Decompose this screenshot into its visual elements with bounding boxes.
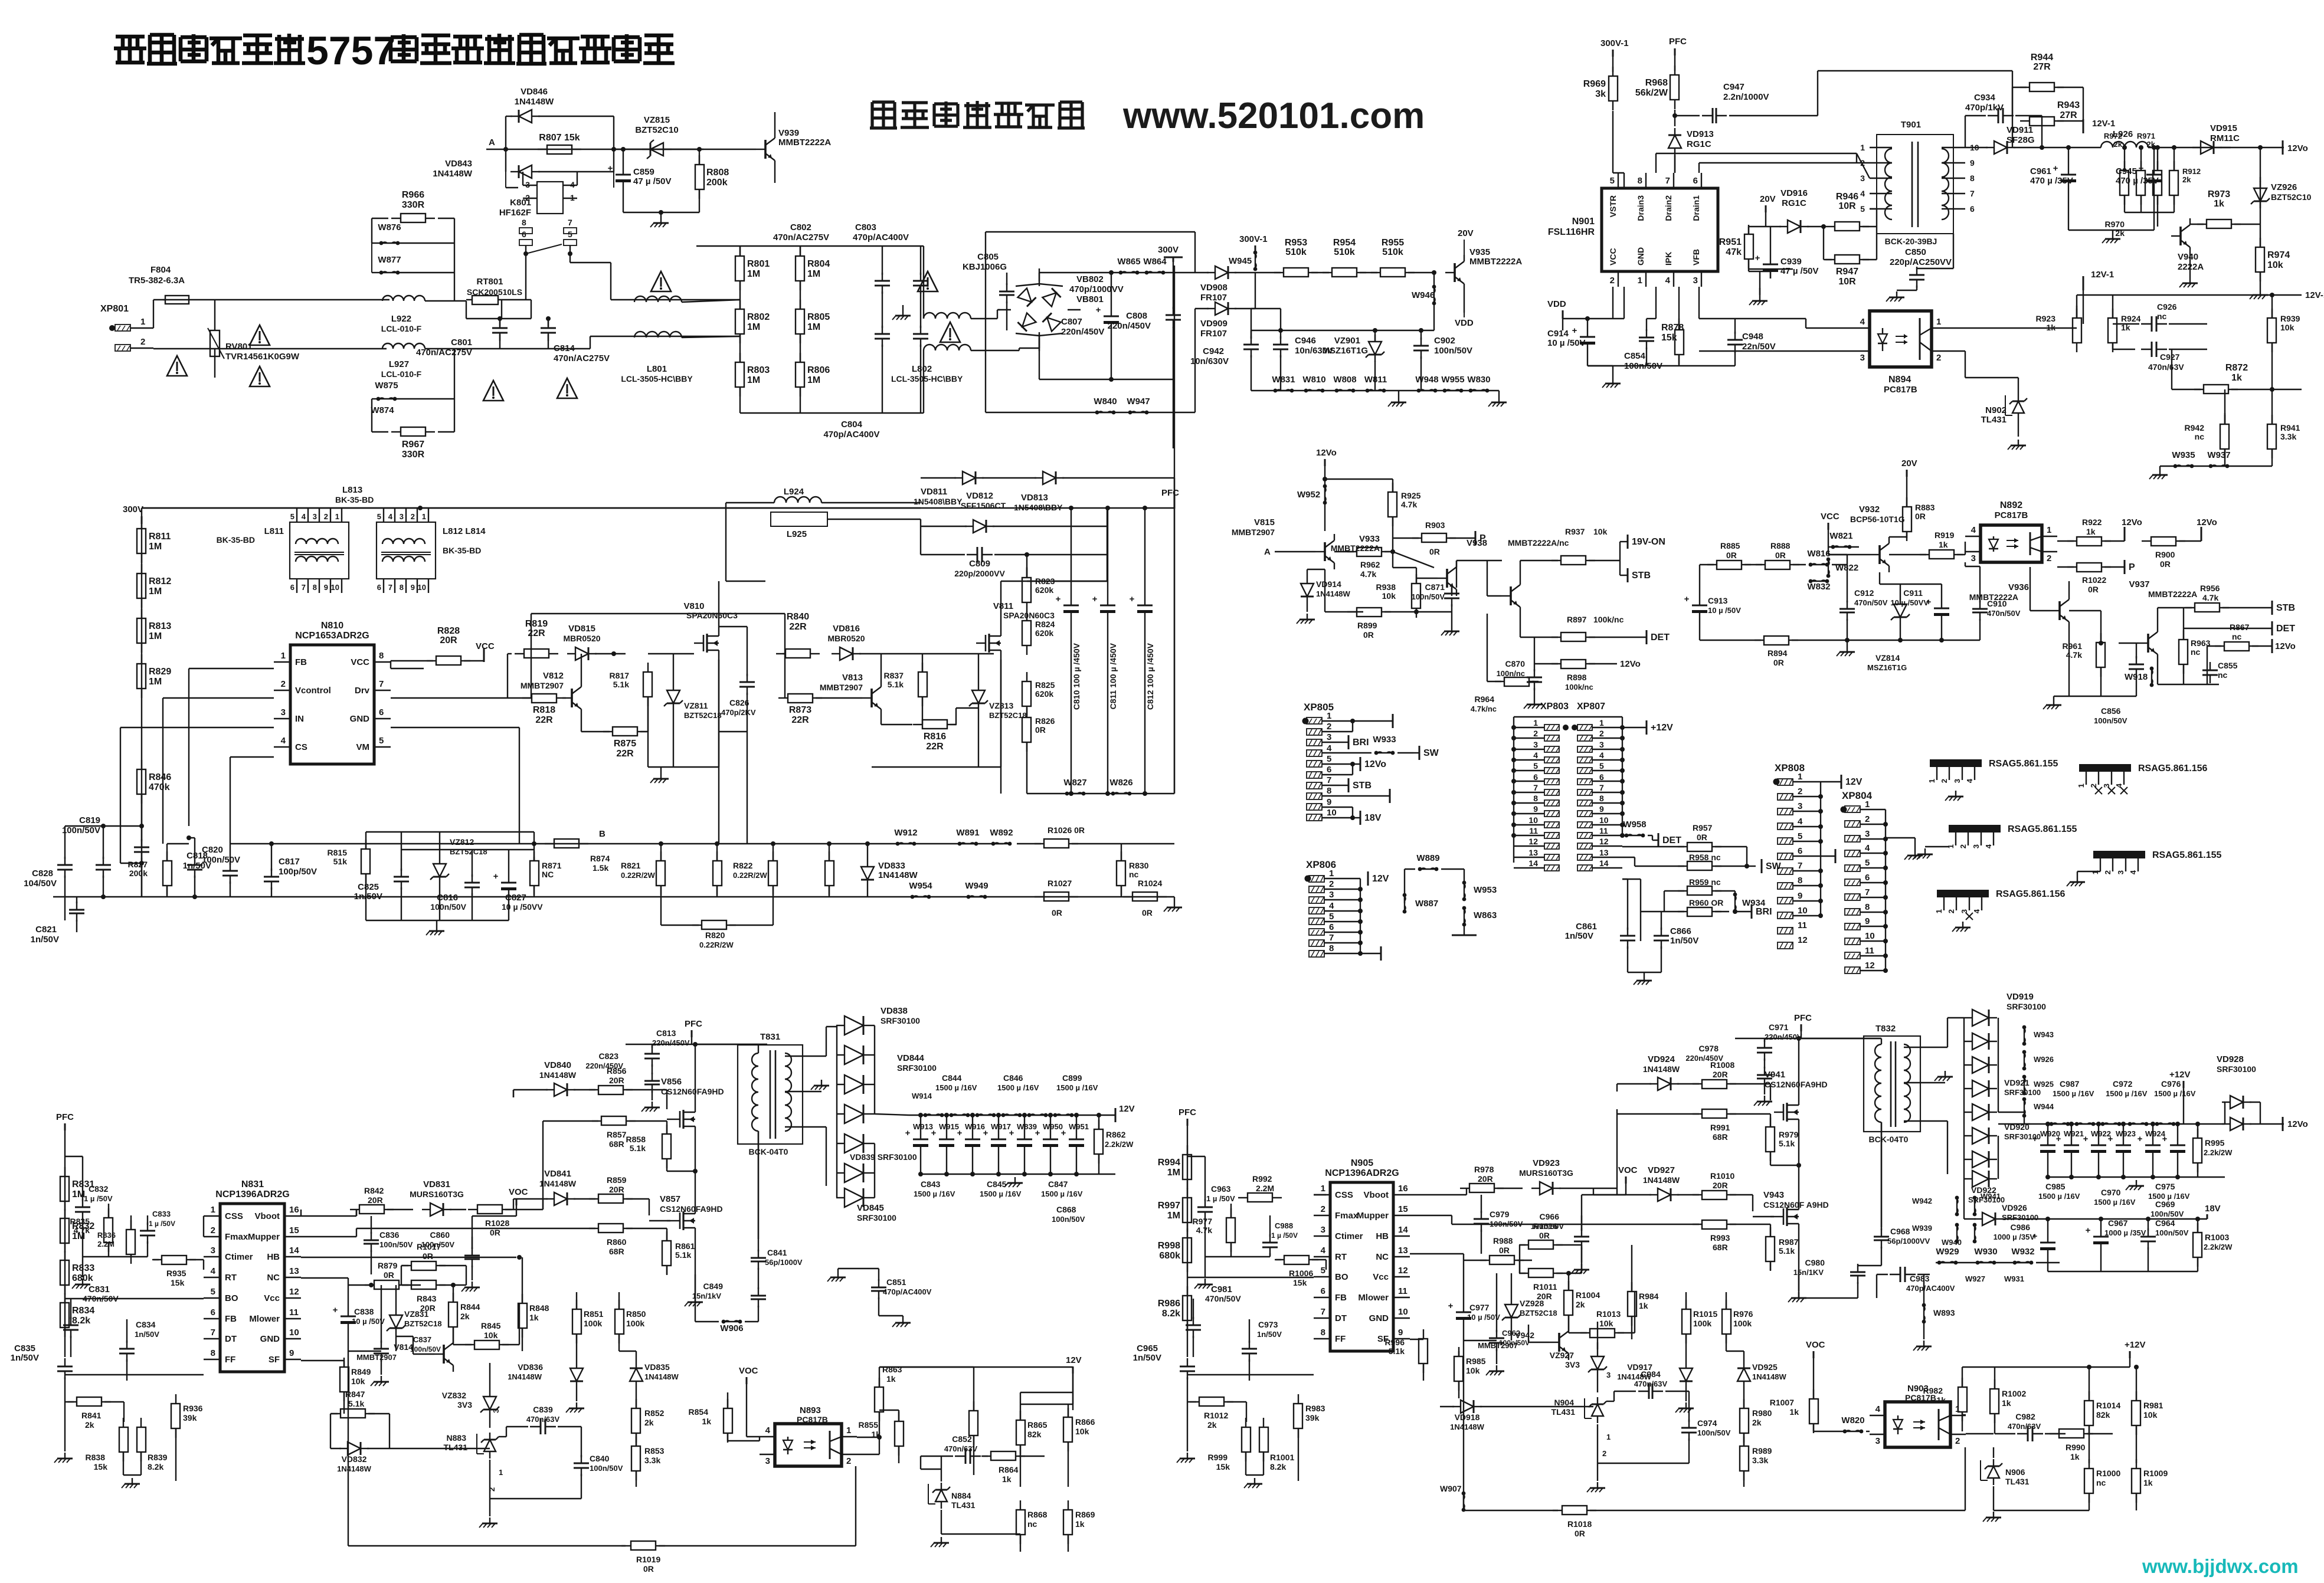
svg-text:39k: 39k: [183, 1413, 197, 1423]
svg-text:2: 2: [1610, 276, 1615, 286]
svg-text:W830: W830: [1467, 375, 1490, 385]
svg-text:47k: 47k: [1726, 247, 1742, 257]
svg-text:10: 10: [289, 1328, 299, 1338]
svg-text:TL431: TL431: [1551, 1407, 1576, 1417]
svg-text:15k: 15k: [1216, 1462, 1230, 1471]
svg-text:5.1k: 5.1k: [675, 1250, 691, 1260]
svg-text:C912: C912: [1854, 588, 1874, 598]
svg-text:C849: C849: [703, 1282, 724, 1291]
svg-text:STB: STB: [2276, 603, 2295, 613]
svg-text:V856: V856: [661, 1077, 682, 1087]
svg-text:R840: R840: [787, 612, 809, 622]
svg-text:V938: V938: [1467, 538, 1487, 548]
svg-text:R854: R854: [689, 1407, 709, 1417]
svg-text:1500 µ /16V: 1500 µ /16V: [980, 1189, 1022, 1198]
svg-text:CS12N60FA9HD: CS12N60FA9HD: [1765, 1080, 1828, 1089]
svg-text:100n/50V: 100n/50V: [62, 825, 100, 835]
svg-text:7: 7: [1329, 933, 1334, 943]
svg-text:+: +: [608, 163, 613, 173]
svg-text:1M: 1M: [149, 677, 162, 687]
svg-text:100n/50V: 100n/50V: [410, 1345, 441, 1353]
svg-text:PC817B: PC817B: [797, 1415, 828, 1424]
svg-text:R960 OR: R960 OR: [1689, 898, 1723, 907]
svg-text:R968: R968: [1645, 78, 1668, 88]
svg-text:1: 1: [1329, 868, 1334, 879]
svg-text:2.2k/2W: 2.2k/2W: [2204, 1243, 2233, 1251]
svg-text:GND: GND: [1369, 1313, 1389, 1323]
svg-text:N892: N892: [2000, 500, 2022, 510]
svg-text:2: 2: [1533, 729, 1538, 738]
svg-text:R1012: R1012: [1204, 1411, 1228, 1420]
svg-text:VD839 SRF30100: VD839 SRF30100: [850, 1152, 917, 1162]
svg-text:VZ927: VZ927: [1550, 1351, 1574, 1360]
svg-text:7: 7: [1798, 861, 1802, 871]
svg-text:HB: HB: [1376, 1231, 1389, 1241]
svg-text:12: 12: [289, 1287, 299, 1297]
svg-text:VD918: VD918: [1455, 1412, 1480, 1422]
svg-text:C812 100 µ /450V: C812 100 µ /450V: [1145, 643, 1155, 710]
svg-text:8.2k: 8.2k: [72, 1316, 90, 1326]
svg-text:R879: R879: [378, 1261, 398, 1270]
svg-text:10: 10: [1398, 1307, 1408, 1317]
svg-text:V942: V942: [1515, 1330, 1534, 1340]
svg-text:R992: R992: [1252, 1174, 1272, 1184]
svg-text:W923: W923: [2116, 1129, 2136, 1138]
svg-text:20V: 20V: [1760, 194, 1776, 204]
svg-text:R806: R806: [807, 365, 830, 375]
svg-text:6: 6: [1327, 765, 1331, 775]
svg-text:PFC: PFC: [1669, 37, 1687, 47]
svg-text:1k: 1k: [702, 1417, 711, 1426]
svg-text:FB: FB: [1335, 1293, 1347, 1303]
svg-text:R862: R862: [1106, 1130, 1126, 1139]
svg-text:R1009: R1009: [2143, 1469, 2168, 1478]
svg-text:1500 µ /16V: 1500 µ /16V: [935, 1083, 977, 1092]
svg-text:1M: 1M: [807, 322, 820, 332]
svg-text:R872: R872: [2225, 363, 2248, 373]
svg-text:8: 8: [1327, 786, 1331, 796]
svg-text:+: +: [1096, 305, 1101, 315]
svg-text:4.7k: 4.7k: [74, 1225, 90, 1235]
svg-text:W816: W816: [1807, 549, 1830, 559]
svg-text:V940: V940: [2178, 252, 2198, 262]
svg-text:2: 2: [1959, 844, 1968, 848]
svg-text:VD811: VD811: [921, 487, 947, 497]
svg-text:VD923: VD923: [1533, 1158, 1560, 1168]
svg-text:10k: 10k: [484, 1330, 498, 1340]
svg-text:VD835: VD835: [644, 1362, 670, 1372]
svg-text:MSZ16T1G: MSZ16T1G: [1322, 346, 1368, 356]
svg-text:R851: R851: [584, 1309, 604, 1319]
svg-text:VDD: VDD: [1547, 299, 1566, 309]
svg-text:6: 6: [1693, 176, 1698, 186]
svg-text:10k: 10k: [2143, 1410, 2158, 1420]
svg-text:68R: 68R: [609, 1247, 624, 1256]
svg-text:C816: C816: [437, 893, 458, 903]
svg-text:C834: C834: [136, 1320, 156, 1329]
svg-text:470p/AC400V: 470p/AC400V: [823, 430, 879, 440]
svg-text:5.1k: 5.1k: [630, 1143, 646, 1153]
svg-text:2: 2: [1327, 722, 1331, 732]
svg-text:C817: C817: [279, 857, 300, 867]
svg-text:nc: nc: [2218, 670, 2228, 680]
svg-text:8: 8: [313, 583, 317, 592]
svg-text:W921: W921: [2064, 1129, 2084, 1138]
svg-text:BK-35-BD: BK-35-BD: [443, 546, 481, 555]
svg-text:9: 9: [411, 583, 415, 592]
svg-text:GND: GND: [350, 714, 370, 724]
svg-text:Vboot: Vboot: [1364, 1190, 1389, 1200]
svg-text:2k: 2k: [2114, 140, 2123, 149]
svg-text:C975: C975: [2155, 1182, 2175, 1191]
svg-text:W916: W916: [965, 1122, 985, 1131]
svg-text:C977: C977: [1469, 1303, 1490, 1312]
svg-text:2.2n/1000V: 2.2n/1000V: [1723, 92, 1769, 102]
svg-text:R838: R838: [86, 1453, 106, 1462]
svg-text:SRF30100: SRF30100: [2007, 1002, 2046, 1011]
svg-text:W840: W840: [1094, 396, 1117, 407]
svg-text:C913: C913: [1708, 596, 1728, 605]
svg-text:A: A: [489, 137, 495, 148]
svg-text:5: 5: [1327, 754, 1331, 764]
svg-text:W935: W935: [2172, 450, 2195, 460]
svg-text:4.7k/nc: 4.7k/nc: [1471, 704, 1497, 713]
svg-text:L925: L925: [787, 529, 807, 539]
svg-text:5: 5: [1599, 761, 1604, 771]
svg-text:TL431: TL431: [1981, 415, 2007, 425]
svg-text:VD832: VD832: [342, 1454, 367, 1464]
svg-text:1: 1: [422, 512, 426, 521]
svg-text:5: 5: [1329, 912, 1334, 922]
svg-text:VD925: VD925: [1752, 1362, 1778, 1372]
svg-text:CSS: CSS: [225, 1211, 243, 1221]
svg-text:4: 4: [765, 1425, 771, 1435]
svg-text:4: 4: [1533, 750, 1538, 760]
svg-text:4: 4: [1860, 189, 1865, 198]
svg-text:BCK-04T0: BCK-04T0: [1869, 1135, 1909, 1144]
svg-text:R982: R982: [1923, 1386, 1943, 1395]
svg-text:47 µ /50V: 47 µ /50V: [1780, 266, 1819, 276]
svg-text:12: 12: [1398, 1266, 1408, 1276]
svg-text:R839: R839: [148, 1453, 168, 1462]
svg-text:8: 8: [522, 218, 526, 227]
svg-text:2k: 2k: [1752, 1418, 1762, 1427]
svg-text:R808: R808: [706, 168, 729, 178]
svg-text:20R: 20R: [609, 1076, 624, 1085]
svg-text:1: 1: [211, 1205, 215, 1215]
svg-text:2: 2: [324, 512, 328, 521]
svg-text:BO: BO: [225, 1293, 238, 1303]
svg-text:R837: R837: [884, 671, 904, 680]
svg-text:C978: C978: [1699, 1044, 1719, 1053]
svg-text:C804: C804: [841, 419, 863, 430]
svg-text:PFC: PFC: [685, 1019, 702, 1029]
svg-text:W948: W948: [1415, 375, 1438, 385]
svg-text:5: 5: [1610, 176, 1615, 186]
svg-text:3: 3: [281, 707, 286, 717]
svg-text:Vboot: Vboot: [255, 1211, 280, 1221]
svg-text:FB: FB: [295, 657, 307, 667]
svg-text:R923: R923: [2036, 314, 2056, 323]
svg-text:100n/50V: 100n/50V: [2150, 1210, 2184, 1218]
svg-text:R885: R885: [1720, 541, 1740, 550]
svg-text:C964: C964: [2155, 1218, 2175, 1228]
svg-text:W864: W864: [1143, 257, 1167, 267]
svg-text:R964: R964: [1475, 694, 1495, 704]
svg-text:8: 8: [1798, 876, 1802, 886]
svg-text:R859: R859: [607, 1175, 627, 1185]
svg-text:5: 5: [1321, 1266, 1325, 1276]
svg-text:BZT52C18: BZT52C18: [1520, 1309, 1557, 1317]
svg-text:39k: 39k: [1305, 1413, 1320, 1423]
svg-text:3: 3: [1875, 1436, 1880, 1446]
svg-text:BCP56-10T1G: BCP56-10T1G: [1850, 514, 1905, 524]
svg-text:10: 10: [1865, 931, 1875, 941]
svg-text:68R: 68R: [609, 1139, 624, 1149]
svg-text:10 µ /50V: 10 µ /50V: [1708, 606, 1741, 615]
svg-text:104/50V: 104/50V: [24, 879, 57, 889]
svg-text:W924: W924: [2145, 1129, 2166, 1138]
svg-text:+12V: +12V: [1651, 723, 1673, 733]
svg-text:11: 11: [1865, 946, 1874, 956]
svg-text:R830: R830: [1129, 861, 1149, 870]
svg-text:R958 nc: R958 nc: [1689, 853, 1721, 862]
svg-text:R1007: R1007: [1770, 1398, 1794, 1407]
svg-text:220n/450V: 220n/450V: [652, 1038, 690, 1047]
svg-text:1M: 1M: [747, 269, 760, 279]
svg-text:3: 3: [1860, 173, 1865, 183]
svg-text:2: 2: [1798, 786, 1802, 797]
svg-text:C847: C847: [1048, 1179, 1068, 1189]
svg-text:10n/630V: 10n/630V: [1190, 356, 1229, 366]
svg-text:RM11C: RM11C: [2210, 133, 2240, 143]
svg-text:100k: 100k: [584, 1319, 602, 1328]
svg-text:R998: R998: [1158, 1241, 1180, 1251]
svg-text:R868: R868: [1027, 1510, 1048, 1519]
svg-text:7: 7: [1533, 783, 1538, 792]
svg-text:11: 11: [1398, 1286, 1408, 1296]
svg-text:VCC: VCC: [351, 657, 369, 667]
svg-text:C850: C850: [1905, 247, 1926, 257]
svg-text:VD815: VD815: [568, 624, 595, 634]
svg-text:W947: W947: [1127, 396, 1150, 407]
svg-text:R873: R873: [789, 705, 811, 715]
svg-text:R871: R871: [542, 861, 562, 870]
svg-text:5.1k: 5.1k: [613, 680, 629, 689]
svg-text:470p/AC400V: 470p/AC400V: [1906, 1284, 1955, 1293]
svg-text:VOC: VOC: [739, 1366, 758, 1376]
svg-text:PFC: PFC: [1161, 488, 1179, 498]
svg-text:0.22R/2W: 0.22R/2W: [699, 940, 734, 949]
svg-text:1k: 1k: [1936, 1395, 1946, 1405]
svg-text:C825: C825: [358, 882, 379, 892]
svg-text:VCC: VCC: [476, 641, 495, 651]
svg-text:10k: 10k: [1593, 527, 1608, 536]
svg-text:6: 6: [1865, 873, 1870, 883]
svg-text:W832: W832: [1807, 582, 1830, 592]
svg-text:R946: R946: [1836, 192, 1858, 202]
svg-text:R983: R983: [1305, 1404, 1325, 1413]
svg-text:W952: W952: [1297, 490, 1320, 500]
svg-text:R987: R987: [1779, 1237, 1799, 1247]
svg-text:+12V: +12V: [2125, 1340, 2145, 1350]
svg-text:R869: R869: [1075, 1510, 1095, 1519]
svg-text:7: 7: [1865, 887, 1870, 897]
svg-text:+: +: [333, 1305, 338, 1315]
svg-text:R922: R922: [2082, 517, 2102, 527]
svg-text:MMBT2222A: MMBT2222A: [1969, 592, 2018, 602]
svg-text:9: 9: [1327, 797, 1331, 807]
svg-text:R817: R817: [610, 671, 630, 680]
svg-text:10: 10: [1798, 906, 1808, 916]
svg-text:0R: 0R: [1915, 512, 1926, 521]
svg-text:W820: W820: [1841, 1415, 1864, 1425]
svg-text:10k: 10k: [1382, 591, 1396, 601]
svg-text:1M: 1M: [149, 631, 162, 641]
svg-text:C948: C948: [1742, 332, 1763, 342]
svg-text:Mupper: Mupper: [248, 1232, 280, 1242]
svg-text:1n/50V: 1n/50V: [135, 1330, 159, 1339]
svg-text:5: 5: [568, 230, 572, 239]
svg-text:VD841: VD841: [544, 1169, 571, 1179]
svg-text:100n/nc: 100n/nc: [1497, 669, 1525, 678]
svg-text:R1001: R1001: [1270, 1453, 1294, 1462]
svg-text:470n/63V: 470n/63V: [944, 1444, 978, 1453]
svg-text:3: 3: [492, 1409, 500, 1413]
svg-text:R969: R969: [1583, 79, 1606, 89]
svg-text:1: 1: [2047, 525, 2051, 535]
svg-text:12V: 12V: [1845, 777, 1863, 787]
svg-text:R841: R841: [81, 1411, 102, 1420]
svg-text:R844: R844: [460, 1302, 480, 1312]
svg-text:510k: 510k: [1382, 247, 1403, 257]
svg-text:1: 1: [1865, 799, 1870, 809]
svg-text:+: +: [2086, 1225, 2091, 1235]
svg-text:BZT52C18: BZT52C18: [684, 711, 722, 720]
svg-text:W863: W863: [1474, 910, 1497, 920]
svg-text:MMBT2907: MMBT2907: [1232, 527, 1275, 537]
svg-text:BCK-20-39BJ: BCK-20-39BJ: [1885, 237, 1937, 246]
svg-text:Drv: Drv: [355, 686, 370, 696]
svg-text:R924: R924: [2121, 314, 2141, 323]
svg-text:10 µ /50V: 10 µ /50V: [1467, 1313, 1500, 1322]
svg-text:R822: R822: [733, 861, 753, 870]
svg-text:CS12N60F A9HD: CS12N60F A9HD: [1763, 1200, 1829, 1210]
svg-text:C844: C844: [942, 1073, 962, 1083]
svg-text:VZ832: VZ832: [442, 1391, 466, 1400]
svg-text:R1017: R1017: [417, 1242, 441, 1251]
svg-text:DET: DET: [1651, 632, 1670, 643]
svg-text:VD838: VD838: [880, 1006, 908, 1016]
svg-text:100n/50V: 100n/50V: [2094, 716, 2127, 725]
svg-text:1N4148W: 1N4148W: [644, 1372, 679, 1381]
svg-text:0R: 0R: [1773, 658, 1784, 667]
svg-text:R986: R986: [1158, 1299, 1180, 1309]
svg-text:4.7k: 4.7k: [1401, 500, 1417, 509]
svg-text:300V: 300V: [1158, 245, 1179, 255]
svg-text:470p/AC400V: 470p/AC400V: [883, 1287, 932, 1296]
svg-text:4.7k: 4.7k: [1360, 569, 1376, 579]
svg-text:10 µ /50VV: 10 µ /50VV: [1890, 598, 1929, 607]
svg-text:12V-1: 12V-1: [2092, 119, 2115, 129]
svg-text:1n/50V: 1n/50V: [354, 892, 382, 902]
svg-text:R849: R849: [351, 1367, 371, 1376]
svg-text:8: 8: [1329, 943, 1334, 953]
svg-text:6: 6: [290, 583, 294, 592]
svg-text:1 µ /50V: 1 µ /50V: [84, 1194, 113, 1203]
svg-text:100n/50V: 100n/50V: [1052, 1215, 1085, 1224]
svg-text:200k: 200k: [706, 178, 728, 188]
svg-text:12V: 12V: [1372, 874, 1389, 884]
svg-text:+: +: [1755, 253, 1760, 263]
svg-text:R997: R997: [1158, 1201, 1180, 1211]
svg-text:L802: L802: [912, 364, 932, 374]
svg-text:VZ901: VZ901: [1334, 336, 1360, 346]
svg-text:R807 15k: R807 15k: [539, 133, 580, 143]
svg-text:VD840: VD840: [544, 1060, 571, 1070]
svg-text:12: 12: [1528, 837, 1538, 846]
svg-text:9: 9: [1398, 1328, 1403, 1338]
svg-text:R967: R967: [402, 440, 424, 450]
svg-text:5: 5: [379, 736, 384, 746]
svg-text:MSZ16T1G: MSZ16T1G: [1867, 663, 1907, 672]
svg-text:C846: C846: [1003, 1073, 1023, 1083]
svg-text:12Vo: 12Vo: [1620, 659, 1641, 669]
svg-text:2: 2: [1599, 729, 1604, 738]
svg-text:1M: 1M: [149, 542, 162, 552]
svg-text:4: 4: [1329, 901, 1334, 911]
svg-text:R995: R995: [2205, 1138, 2225, 1148]
svg-text:14: 14: [1398, 1225, 1408, 1235]
svg-text:+: +: [1130, 594, 1135, 604]
svg-text:2: 2: [487, 1487, 496, 1492]
svg-text:22n/50V: 22n/50V: [1742, 342, 1776, 352]
svg-text:6: 6: [377, 583, 381, 592]
svg-text:2: 2: [211, 1225, 215, 1235]
svg-text:nc: nc: [2191, 647, 2201, 657]
svg-text:1n/50V: 1n/50V: [1670, 936, 1698, 946]
svg-text:C963: C963: [1211, 1184, 1231, 1194]
svg-text:R835: R835: [70, 1217, 90, 1226]
svg-text:CS12N60FA9HD: CS12N60FA9HD: [660, 1204, 723, 1214]
svg-text:C852: C852: [952, 1434, 972, 1444]
svg-text:4: 4: [1860, 317, 1865, 327]
svg-text:CSS: CSS: [1335, 1190, 1353, 1200]
svg-text:W826: W826: [1109, 778, 1132, 788]
svg-text:TVR14561K0G9W: TVR14561K0G9W: [225, 352, 300, 362]
svg-text:R947: R947: [1836, 267, 1858, 277]
svg-text:470n/AC275V: 470n/AC275V: [416, 348, 472, 358]
svg-text:470n/AC275V: 470n/AC275V: [554, 353, 610, 363]
svg-text:2.2M: 2.2M: [97, 1240, 114, 1248]
svg-text:7: 7: [1665, 176, 1670, 186]
svg-text:VD908: VD908: [1200, 283, 1228, 293]
svg-text:RSAG5.861.156: RSAG5.861.156: [2138, 763, 2208, 774]
svg-text:12V-1: 12V-1: [2091, 270, 2114, 280]
svg-text:FF: FF: [1335, 1334, 1346, 1344]
svg-text:FR107: FR107: [1200, 293, 1227, 303]
svg-text:LCL-3505-HC\BBY: LCL-3505-HC\BBY: [621, 374, 693, 384]
svg-text:20R: 20R: [440, 635, 457, 645]
svg-text:TR5-382-6.3A: TR5-382-6.3A: [129, 276, 185, 286]
svg-text:VD816: VD816: [833, 624, 860, 634]
svg-text:Ctimer: Ctimer: [225, 1252, 253, 1262]
svg-text:1n/50V: 1n/50V: [1257, 1330, 1282, 1339]
svg-text:R1016: R1016: [1533, 1221, 1557, 1231]
svg-text:8: 8: [211, 1348, 215, 1358]
svg-text:1k: 1k: [1639, 1301, 1648, 1310]
svg-text:0R: 0R: [1363, 630, 1374, 640]
